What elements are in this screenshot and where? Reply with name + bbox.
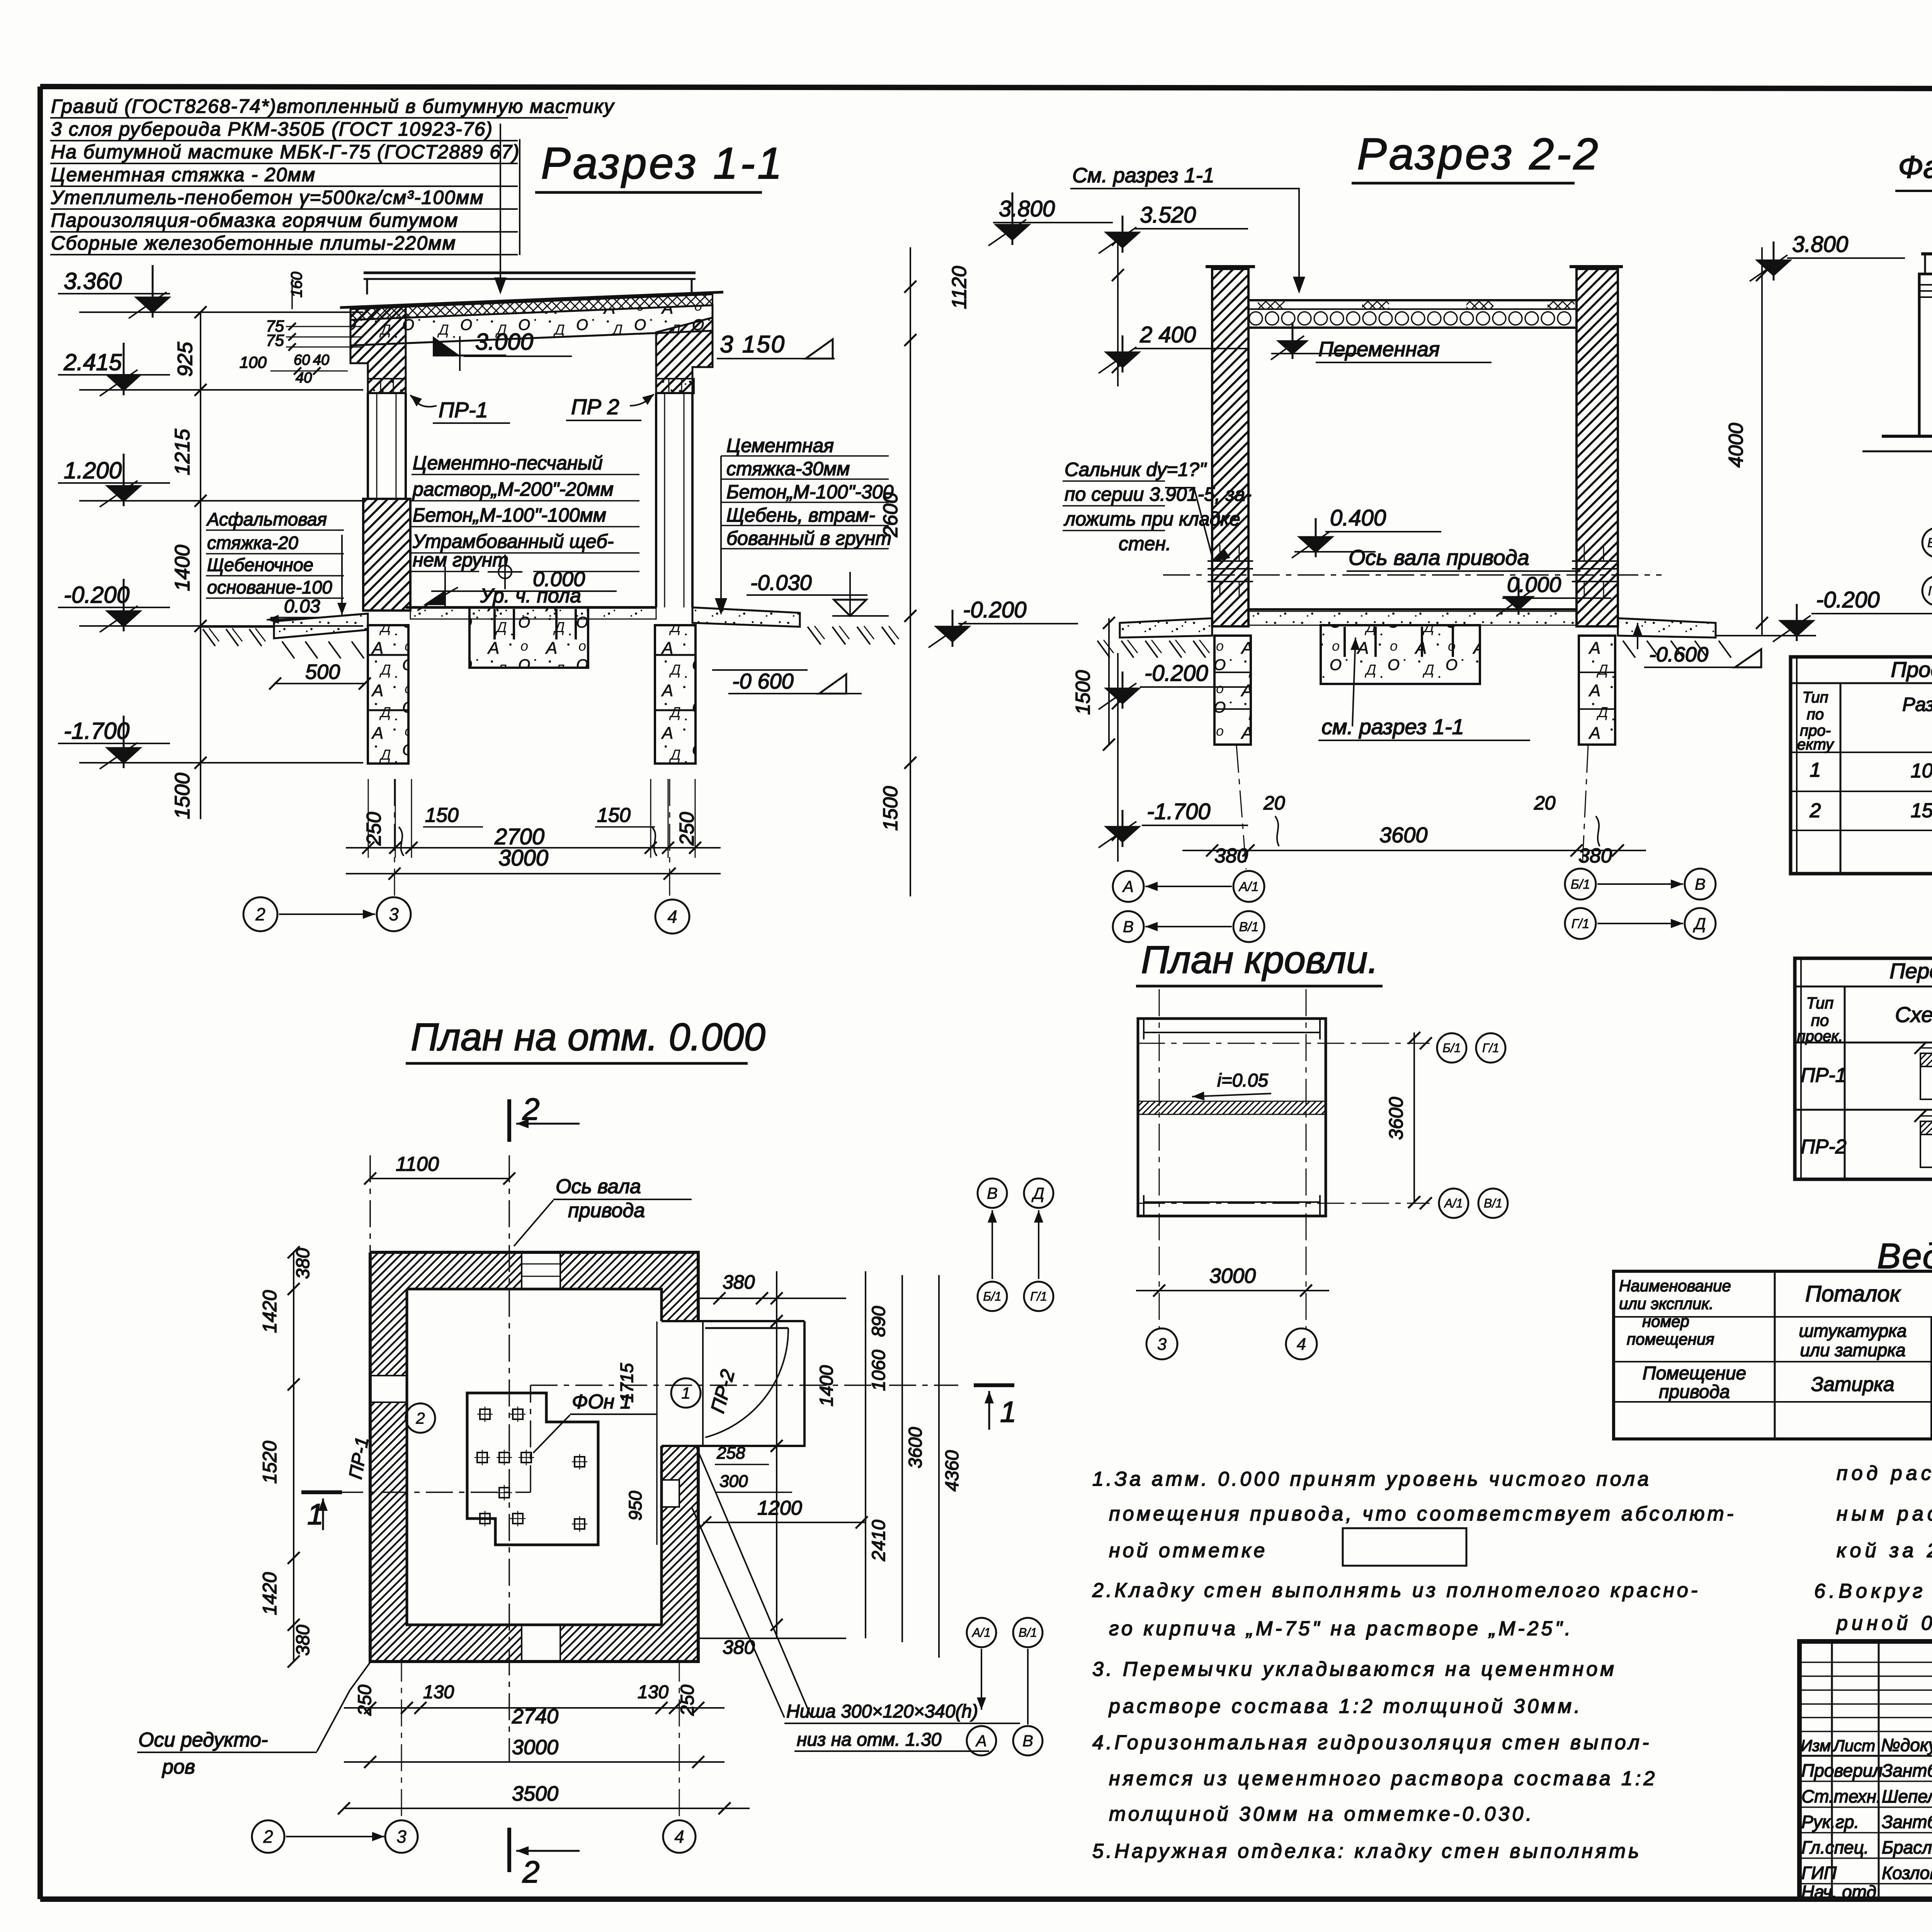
svg-text:i=0.05: i=0.05 [1217,1070,1268,1091]
svg-text:2: 2 [522,1092,540,1126]
svg-text:3500: 3500 [512,1782,558,1805]
svg-text:Ось вала привода: Ось вала привода [1349,545,1529,570]
svg-text:стяжка-30мм: стяжка-30мм [726,458,850,480]
svg-text:Цементная: Цементная [726,435,834,456]
svg-text:Цементно-песчаный: Цементно-песчаный [413,452,603,474]
svg-text:4: 4 [674,1827,684,1847]
svg-text:Б/1: Б/1 [983,1289,1002,1303]
svg-text:помещения: помещения [1627,1330,1714,1348]
svg-text:под расшивку швов, цоколь и: под расшивку швов, цоколь и откосы оштук… [1837,1462,1932,1485]
svg-text:Зантберг.: Зантберг. [1882,1760,1932,1781]
svg-text:Гл.спец.: Гл.спец. [1801,1837,1869,1857]
svg-text:растворе состава 1:2 толщиной: растворе состава 1:2 толщиной 30мм. [1108,1695,1583,1718]
svg-text:Б/1: Б/1 [1927,536,1932,550]
svg-text:ПР-1: ПР-1 [1801,1064,1847,1087]
svg-text:бованный в грунт: бованный в грунт [726,527,891,549]
svg-text:2740: 2740 [512,1705,558,1728]
svg-text:по: по [1807,706,1824,723]
svg-text:20: 20 [1263,792,1285,814]
svg-text:План кровли.: План кровли. [1141,938,1378,981]
svg-text:Бетон„М-100"-100мм: Бетон„М-100"-100мм [413,504,606,526]
svg-text:Сальник dу=1?": Сальник dу=1?" [1065,459,1207,480]
svg-text:4: 4 [667,906,677,927]
svg-text:Браславский: Браславский [1882,1837,1932,1857]
svg-text:Тип: Тип [1802,689,1828,706]
svg-text:В: В [1695,875,1706,893]
svg-text:1120: 1120 [948,266,971,309]
svg-text:или затирка: или затирка [1800,1340,1905,1360]
svg-text:1500: 1500 [171,773,194,819]
svg-text:3600: 3600 [1385,1097,1407,1140]
svg-text:1400: 1400 [816,1365,837,1406]
svg-text:1500: 1500 [1072,670,1094,715]
svg-text:нем грунт: нем грунт [413,549,509,571]
svg-text:60: 60 [294,352,310,368]
svg-text:Схема сечения: Схема сечения [1895,1002,1932,1027]
svg-text:Ниша 300×120×340(h): Ниша 300×120×340(h) [786,1701,978,1722]
svg-text:1060: 1060 [869,1350,889,1391]
svg-text:А: А [975,1732,987,1750]
svg-text:3: 3 [396,1827,406,1847]
svg-text:ложить при кладке: ложить при кладке [1063,508,1240,530]
svg-text:1200: 1200 [757,1497,802,1519]
svg-text:по серии 3.901-5, за-: по серии 3.901-5, за- [1065,483,1252,505]
svg-text:-0.200: -0.200 [1145,661,1208,686]
svg-text:Перемычки: Перемычки [1889,959,1932,983]
svg-text:-0.200: -0.200 [963,597,1026,622]
svg-text:екту: екту [1797,736,1835,753]
svg-text:3: 3 [389,904,399,924]
svg-text:250: 250 [363,812,385,846]
svg-text:Разрез 2-2: Разрез 2-2 [1357,129,1600,179]
svg-text:№докум.: №докум. [1881,1735,1932,1755]
svg-text:2.Кладку стен выполнять из пол: 2.Кладку стен выполнять из полнотелого к… [1092,1579,1700,1602]
svg-text:Щебень, втрам-: Щебень, втрам- [726,504,875,526]
svg-text:3000: 3000 [1209,1264,1256,1287]
svg-text:75: 75 [266,331,284,349]
svg-text:Б/1: Б/1 [1571,877,1590,892]
svg-text:3.800: 3.800 [999,196,1055,221]
svg-text:150: 150 [425,804,459,827]
svg-text:3. Перемычки укладываются на ц: 3. Перемычки укладываются на цементном [1092,1658,1617,1680]
svg-text:Переменная: Переменная [1318,338,1440,361]
svg-text:2: 2 [415,1409,425,1427]
svg-text:925: 925 [173,342,197,377]
svg-text:1: 1 [1000,1396,1016,1429]
svg-text:см. разрез 1-1: см. разрез 1-1 [1321,714,1464,739]
svg-text:1500: 1500 [879,786,902,831]
svg-text:Б/1: Б/1 [1442,1041,1461,1055]
svg-text:1: 1 [681,1384,690,1402]
svg-text:3.800: 3.800 [1792,232,1848,257]
svg-text:Помещение: Помещение [1643,1363,1746,1384]
svg-text:Г/1: Г/1 [1928,584,1932,599]
svg-text:4: 4 [1297,1335,1306,1354]
svg-text:1520: 1520 [259,1441,281,1484]
svg-text:-0.200: -0.200 [1816,587,1879,612]
svg-text:150: 150 [597,804,631,827]
svg-text:Фасад Б/1(Г/1)-А/1(В/1): Фасад Б/1(Г/1)-А/1(В/1) [1898,150,1932,185]
svg-text:Гравий (ГОСТ8268-74*)втопленны: Гравий (ГОСТ8268-74*)втопленный в битумн… [51,95,615,117]
svg-text:1715: 1715 [617,1363,637,1403]
svg-text:2: 2 [522,1855,540,1889]
svg-text:-0.200: -0.200 [64,582,129,608]
svg-text:1420: 1420 [259,1290,281,1333]
svg-text:привода: привода [1659,1382,1730,1402]
svg-text:3: 3 [1157,1335,1167,1354]
svg-text:950: 950 [625,1491,645,1520]
svg-text:40: 40 [313,352,329,368]
svg-text:1.За атм. 0.000 принят уровень: 1.За атм. 0.000 принят уровень чистого п… [1092,1468,1651,1490]
svg-text:В: В [987,1184,998,1202]
svg-text:Ось вала: Ось вала [556,1175,641,1198]
svg-text:Щебеночное: Щебеночное [207,554,313,575]
svg-text:2.415: 2.415 [63,349,122,375]
svg-text:-0.030: -0.030 [750,570,812,595]
svg-text:В/1: В/1 [1019,1626,1037,1639]
svg-text:Бетон„М-100"-300: Бетон„М-100"-300 [726,481,894,503]
svg-text:500: 500 [305,660,340,684]
svg-text:В/1: В/1 [1239,920,1259,934]
svg-text:3000: 3000 [512,1736,558,1759]
svg-text:40: 40 [296,370,312,386]
svg-text:ПР 2: ПР 2 [571,395,619,419]
svg-text:А/1: А/1 [1238,879,1259,894]
svg-text:стяжка-20: стяжка-20 [207,532,298,553]
svg-text:Пароизоляция-обмазка горячим б: Пароизоляция-обмазка горячим битумом [51,209,459,231]
svg-text:1.200: 1.200 [64,457,122,483]
svg-text:ной отметке: ной отметке [1109,1539,1267,1562]
svg-text:Утеплитель-пенобетон γ=500кг/: Утеплитель-пенобетон γ=500кг/см³-100мм [51,187,484,208]
svg-text:100: 100 [240,353,267,371]
svg-text:Проверил: Проверил [1801,1760,1883,1781]
svg-text:Изм: Изм [1801,1736,1831,1755]
svg-text:Наименование: Наименование [1619,1277,1731,1295]
svg-text:Козловская: Козловская [1882,1863,1932,1883]
svg-text:-0 600: -0 600 [732,669,794,693]
svg-text:4360: 4360 [942,1450,963,1492]
svg-text:по: по [1811,1011,1829,1029]
svg-text:250: 250 [676,812,698,846]
svg-text:Поталок: Поталок [1805,1281,1901,1306]
svg-text:Сборные железобетонные плиты: Сборные железобетонные плиты-220мм [51,232,456,254]
svg-text:130: 130 [638,1682,668,1702]
svg-text:стен.: стен. [1119,533,1171,554]
svg-text:няется из цементного раствора: няется из цементного раствора состава 1:… [1109,1767,1657,1790]
svg-text:ров: ров [162,1756,195,1778]
svg-text:проек.: проек. [1797,1028,1843,1045]
svg-text:Зантберг.: Зантберг. [1882,1812,1932,1832]
svg-text:3.520: 3.520 [1140,202,1196,228]
svg-text:160: 160 [288,272,305,298]
svg-text:низ на отм. 1.30: низ на отм. 1.30 [797,1730,942,1750]
svg-text:380: 380 [1214,845,1248,867]
svg-text:Г/1: Г/1 [1482,1041,1499,1055]
svg-text:1060 × 2400: 1060 × 2400 [1911,760,1932,782]
svg-text:3 150: 3 150 [720,331,786,358]
svg-text:2: 2 [255,904,265,924]
svg-text:3.000: 3.000 [475,329,533,355]
svg-text:толщиной 30мм на отметке-0.03: толщиной 30мм на отметке-0.030. [1109,1803,1534,1825]
svg-text:Размер в клад: Размер в клад [1902,694,1932,715]
svg-text:В: В [1123,918,1134,936]
svg-text:890: 890 [869,1306,889,1337]
svg-text:помещения привода, что соответ: помещения привода, что соответствует абс… [1109,1503,1736,1525]
svg-text:В/1: В/1 [1484,1196,1502,1210]
svg-text:3 слоя рубероида РКМ-350Б (ГОС: 3 слоя рубероида РКМ-350Б (ГОСТ 10923-76… [51,118,493,140]
svg-text:300: 300 [719,1472,748,1491]
svg-text:штукатурка: штукатурка [1799,1321,1907,1341]
svg-text:3000: 3000 [498,845,548,871]
svg-text:250: 250 [355,1685,375,1716]
svg-text:-0.600: -0.600 [1649,643,1708,666]
svg-text:Лист: Лист [1832,1736,1875,1755]
svg-text:380: 380 [723,1271,755,1293]
svg-text:Д: Д [1031,1184,1044,1202]
svg-text:3.360: 3.360 [64,268,122,294]
svg-text:Затирка: Затирка [1811,1373,1894,1396]
svg-text:См. разрез 1-1: См. разрез 1-1 [1072,164,1214,187]
svg-text:Цементная стяжка -: Цементная стяжка - 20мм [51,164,316,185]
svg-text:6.Вокруг здания устраивается: 6.Вокруг здания устраивается асфальтовая… [1814,1580,1932,1602]
svg-text:А/1: А/1 [971,1626,991,1639]
svg-text:380: 380 [293,1625,313,1656]
svg-text:Тип: Тип [1806,994,1834,1012]
svg-text:-1.700: -1.700 [1147,799,1210,824]
svg-text:5.Наружная отделка: кладку ст: 5.Наружная отделка: кладку стен выполнят… [1092,1840,1641,1862]
svg-text:В: В [1022,1732,1033,1750]
svg-text:4.Горизонтальная гидроизоляци: 4.Горизонтальная гидроизоляция стен выпо… [1092,1731,1651,1754]
svg-text:2: 2 [263,1827,273,1847]
svg-text:Асфальтовая: Асфальтовая [206,509,327,529]
svg-text:привода: привода [568,1199,645,1222]
svg-text:258: 258 [716,1444,745,1463]
svg-text:Оси редукто-: Оси редукто- [138,1729,268,1751]
svg-text:2410: 2410 [869,1520,889,1561]
svg-text:Шепеленко: Шепеленко [1882,1786,1932,1806]
svg-text:Разрез 1-1: Разрез 1-1 [541,139,784,188]
svg-text:-1.700: -1.700 [64,718,129,744]
svg-text:номер: номер [1642,1312,1689,1330]
svg-text:А/1: А/1 [1444,1196,1463,1210]
svg-text:1420: 1420 [259,1572,281,1615]
svg-text:риной 0,5м: риной 0,5м [1836,1612,1932,1634]
svg-text:Г/1: Г/1 [1030,1289,1047,1303]
svg-text:250: 250 [677,1685,698,1716]
svg-text:0.000: 0.000 [1507,572,1561,597]
svg-text:1: 1 [307,1498,323,1531]
svg-text:1: 1 [1810,759,1821,781]
svg-text:или эксплик.: или эксплик. [1619,1294,1714,1313]
svg-text:Нач. отд: Нач. отд [1801,1882,1876,1902]
svg-text:20: 20 [1534,792,1556,814]
svg-text:4000: 4000 [1725,423,1747,468]
svg-text:1100: 1100 [396,1153,439,1175]
svg-text:А: А [1122,878,1134,896]
svg-text:раствор„М-200"-20мм: раствор„М-200"-20мм [412,478,614,500]
svg-text:2 400: 2 400 [1139,322,1196,347]
svg-text:0.400: 0.400 [1330,505,1386,531]
svg-text:Проемы: Проемы [1891,657,1932,682]
svg-text:1215: 1215 [171,429,194,475]
svg-text:План на отм. 0.000: План на отм. 0.000 [411,1015,765,1059]
svg-text:380: 380 [293,1248,313,1279]
svg-text:основание-100: основание-100 [207,577,332,597]
svg-text:го кирпича „М-75" на растворе: го кирпича „М-75" на растворе „М-25". [1109,1617,1573,1640]
svg-text:1400: 1400 [171,545,194,591]
svg-text:кой за 2 раза.: кой за 2 раза. [1837,1539,1932,1562]
svg-text:3600: 3600 [1379,823,1428,847]
svg-text:130: 130 [423,1682,454,1702]
svg-text:Г/1: Г/1 [1571,917,1590,931]
svg-text:На битумной мастике МБК-Г-75 (: На битумной мастике МБК-Г-75 (ГОСТ2889 6… [51,141,520,163]
svg-text:1520 × 1215: 1520 × 1215 [1911,799,1932,822]
svg-text:Д: Д [1693,915,1706,933]
svg-text:ГИП: ГИП [1801,1863,1837,1883]
svg-text:0.03: 0.03 [284,596,320,617]
svg-text:Рук.гр.: Рук.гр. [1801,1812,1859,1832]
svg-text:2600: 2600 [879,492,902,537]
svg-text:Ур. ч. пола: Ур. ч. пола [480,585,581,607]
svg-text:ным раствором. Окна и двери: ным раствором. Окна и двери окрасить мас… [1837,1503,1932,1525]
svg-text:Ст.техн.: Ст.техн. [1801,1786,1881,1806]
svg-text:ПР-2: ПР-2 [1801,1136,1847,1158]
svg-text:2: 2 [1810,799,1821,822]
svg-text:3600: 3600 [905,1427,926,1468]
svg-text:ПР-1: ПР-1 [439,398,488,422]
